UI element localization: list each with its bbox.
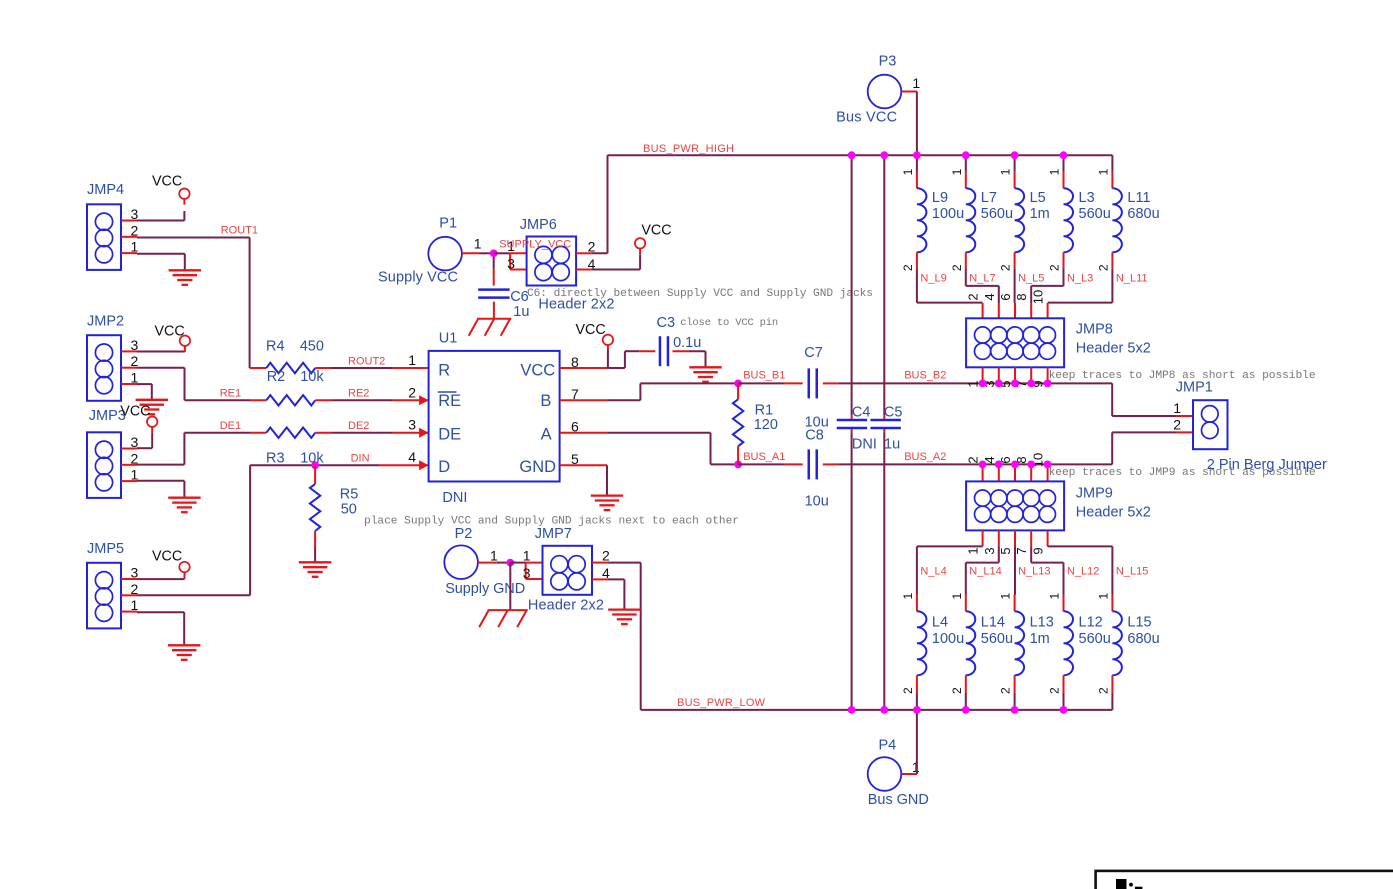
svg-text:RE1: RE1 [220, 388, 241, 400]
svg-text:1: 1 [1173, 400, 1181, 416]
svg-text:L12: L12 [1079, 615, 1103, 631]
svg-text:DE2: DE2 [348, 420, 369, 432]
svg-text:1m: 1m [1030, 631, 1050, 647]
svg-text:N_L14: N_L14 [969, 566, 1001, 578]
svg-text:1: 1 [1096, 593, 1110, 600]
svg-text:1: 1 [131, 597, 139, 613]
svg-text:GND: GND [519, 458, 556, 476]
svg-text:R2: R2 [267, 369, 286, 385]
svg-text:9: 9 [1031, 547, 1046, 554]
svg-text:C3: C3 [657, 315, 676, 331]
svg-text:1: 1 [912, 75, 920, 91]
svg-text:L9: L9 [932, 190, 948, 206]
svg-text:1: 1 [131, 239, 139, 255]
svg-text:2: 2 [999, 264, 1013, 271]
svg-text:Header 5x2: Header 5x2 [1076, 505, 1151, 521]
svg-text:JMP8: JMP8 [1076, 322, 1113, 338]
svg-text:0.1u: 0.1u [673, 335, 701, 351]
svg-text:560u: 560u [981, 631, 1013, 647]
svg-text:BUS_PWR_HIGH: BUS_PWR_HIGH [643, 143, 734, 155]
svg-text:VCC: VCC [576, 322, 606, 338]
svg-text:3: 3 [523, 565, 531, 581]
svg-text:1: 1 [966, 380, 981, 387]
svg-text:D: D [438, 458, 450, 476]
svg-text:1: 1 [1096, 168, 1110, 175]
svg-text:2: 2 [1048, 687, 1062, 694]
svg-text:JMP5: JMP5 [87, 541, 124, 557]
svg-text:L11: L11 [1127, 190, 1150, 206]
svg-text:R3: R3 [266, 450, 285, 466]
svg-text:3: 3 [982, 547, 997, 554]
svg-text:Header 2x2: Header 2x2 [528, 598, 604, 614]
svg-text:560u: 560u [981, 206, 1013, 222]
svg-text:L3: L3 [1079, 190, 1095, 206]
svg-text:2 Pin Berg Jumper: 2 Pin Berg Jumper [1207, 457, 1327, 473]
svg-text:place Supply VCC and Supply GN: place Supply VCC and Supply GND jacks ne… [364, 516, 739, 528]
svg-text:2: 2 [950, 687, 964, 694]
svg-text:VCC: VCC [152, 174, 182, 190]
svg-text:C6: C6 [510, 289, 529, 305]
svg-text:Bus GND: Bus GND [868, 792, 929, 808]
svg-text:Header 5x2: Header 5x2 [1076, 340, 1151, 356]
svg-text:560u: 560u [1079, 631, 1111, 647]
svg-text:N_L7: N_L7 [969, 273, 995, 285]
svg-text:1: 1 [901, 593, 915, 600]
svg-text:1u: 1u [513, 304, 529, 320]
svg-text:ROUT1: ROUT1 [221, 225, 258, 237]
svg-text:N_L13: N_L13 [1018, 566, 1050, 578]
svg-text:L7: L7 [981, 190, 997, 206]
svg-text:DE: DE [438, 425, 461, 443]
svg-text:Supply VCC: Supply VCC [378, 270, 458, 286]
svg-text:B: B [540, 392, 551, 410]
svg-text:4: 4 [408, 449, 416, 465]
svg-text:ROUT2: ROUT2 [348, 356, 385, 368]
svg-text:A: A [541, 425, 552, 443]
svg-text:N_L15: N_L15 [1116, 566, 1148, 578]
svg-text:N_L3: N_L3 [1067, 273, 1093, 285]
svg-text:10k: 10k [300, 369, 324, 385]
svg-text:10: 10 [1031, 290, 1046, 304]
svg-text:DIN: DIN [351, 453, 370, 465]
svg-text:L13: L13 [1030, 615, 1054, 631]
svg-text:BUS_B2: BUS_B2 [904, 370, 946, 382]
svg-text:R: R [438, 361, 450, 379]
svg-text:1: 1 [999, 168, 1013, 175]
svg-text:L4: L4 [932, 615, 948, 631]
svg-text:10k: 10k [300, 450, 324, 466]
svg-text:2: 2 [1096, 264, 1110, 271]
svg-text:BUS_A1: BUS_A1 [743, 451, 785, 463]
svg-text:1: 1 [490, 548, 498, 564]
svg-text:VCC: VCC [641, 223, 671, 239]
svg-text:450: 450 [300, 339, 324, 355]
svg-text:2: 2 [966, 293, 981, 300]
svg-text:100u: 100u [932, 631, 964, 647]
svg-text:1: 1 [901, 168, 915, 175]
svg-text:2: 2 [131, 222, 139, 238]
svg-text:VCC: VCC [120, 404, 150, 420]
svg-text:C8: C8 [805, 427, 824, 443]
svg-text:N_L4: N_L4 [920, 566, 946, 578]
svg-text:SUPPLY_VCC: SUPPLY_VCC [499, 239, 571, 251]
svg-text:JMP2: JMP2 [87, 314, 124, 330]
svg-text:1: 1 [950, 593, 964, 600]
svg-text:JMP9: JMP9 [1076, 486, 1113, 502]
svg-text:VCC: VCC [155, 324, 185, 340]
svg-text:2: 2 [901, 264, 915, 271]
svg-text:100u: 100u [932, 206, 964, 222]
svg-text:P4: P4 [879, 738, 897, 754]
svg-text:close to VCC pin: close to VCC pin [680, 317, 778, 329]
svg-text:C6: directly between Supply VC: C6: directly between Supply VCC and Supp… [527, 288, 873, 300]
svg-text:2: 2 [1173, 417, 1181, 433]
svg-text:2: 2 [901, 687, 915, 694]
svg-text:BUS_PWR_LOW: BUS_PWR_LOW [677, 697, 766, 709]
svg-text:1m: 1m [1030, 206, 1050, 222]
svg-text:P2: P2 [455, 526, 473, 542]
svg-text:1: 1 [1048, 593, 1062, 600]
svg-text:BUS_A2: BUS_A2 [904, 451, 946, 463]
svg-text:R4: R4 [266, 339, 285, 355]
svg-text:Bus VCC: Bus VCC [836, 110, 897, 126]
svg-text:120: 120 [754, 417, 778, 433]
svg-text:JMP6: JMP6 [520, 217, 557, 233]
svg-text:2: 2 [999, 687, 1013, 694]
svg-text:DNI: DNI [442, 490, 467, 506]
svg-text:2: 2 [588, 239, 596, 255]
svg-text:U1: U1 [439, 330, 458, 346]
svg-text:L15: L15 [1127, 615, 1151, 631]
svg-text:1: 1 [966, 547, 981, 554]
svg-text:2: 2 [1048, 264, 1062, 271]
svg-text:R5: R5 [340, 486, 359, 502]
svg-text:N_L5: N_L5 [1018, 273, 1044, 285]
svg-text:5: 5 [998, 547, 1013, 554]
svg-text:8: 8 [1014, 293, 1029, 300]
svg-text:L5: L5 [1030, 190, 1046, 206]
svg-text:560u: 560u [1079, 206, 1111, 222]
svg-text:680u: 680u [1127, 631, 1159, 647]
svg-text:3: 3 [408, 417, 416, 433]
svg-text:C5: C5 [884, 404, 903, 420]
svg-text:RE: RE [438, 392, 461, 410]
svg-text:BUS_B1: BUS_B1 [743, 370, 785, 382]
svg-text:1: 1 [999, 593, 1013, 600]
svg-text:1: 1 [950, 168, 964, 175]
svg-text:VCC: VCC [152, 549, 182, 565]
svg-text:680u: 680u [1127, 206, 1159, 222]
svg-text:7: 7 [1014, 547, 1029, 554]
svg-text:JMP1: JMP1 [1176, 380, 1213, 396]
svg-text:RE2: RE2 [348, 388, 369, 400]
svg-text:JMP4: JMP4 [87, 182, 124, 198]
svg-text:1: 1 [408, 352, 416, 368]
svg-text:10u: 10u [805, 494, 829, 510]
svg-text:1u: 1u [884, 437, 900, 453]
svg-text:2: 2 [966, 456, 981, 463]
svg-text:1: 1 [523, 548, 531, 564]
svg-text:6: 6 [998, 293, 1013, 300]
svg-text:P3: P3 [879, 54, 897, 70]
svg-text:DE1: DE1 [220, 420, 241, 432]
svg-text:50: 50 [341, 502, 357, 518]
svg-text:2: 2 [950, 264, 964, 271]
svg-text:C4: C4 [852, 404, 871, 420]
svg-text:1: 1 [1048, 168, 1062, 175]
svg-text:P1: P1 [439, 216, 457, 232]
svg-text:1: 1 [474, 236, 482, 252]
svg-text:3: 3 [507, 256, 515, 272]
svg-text:4: 4 [982, 293, 997, 300]
svg-text:Supply GND: Supply GND [445, 581, 525, 597]
svg-text:N_L9: N_L9 [920, 273, 946, 285]
svg-text:N_L11: N_L11 [1116, 273, 1148, 285]
svg-text:L14: L14 [981, 615, 1005, 631]
svg-text:2: 2 [602, 548, 610, 564]
svg-text:VCC: VCC [520, 361, 555, 379]
svg-text:2: 2 [1096, 687, 1110, 694]
svg-text:C7: C7 [804, 345, 823, 361]
svg-text:JMP7: JMP7 [535, 526, 572, 542]
svg-text:2: 2 [408, 384, 416, 400]
svg-text:N_L12: N_L12 [1067, 566, 1099, 578]
svg-text:DNI: DNI [852, 437, 877, 453]
